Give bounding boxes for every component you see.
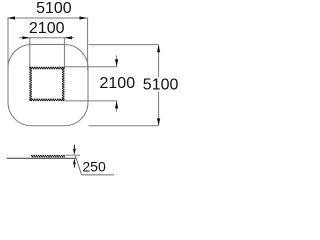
svg-text:250: 250 [82,158,106,174]
svg-text:2100: 2100 [29,20,65,37]
svg-text:2100: 2100 [100,75,136,92]
svg-text:5100: 5100 [143,77,179,94]
svg-text:5100: 5100 [36,0,72,17]
